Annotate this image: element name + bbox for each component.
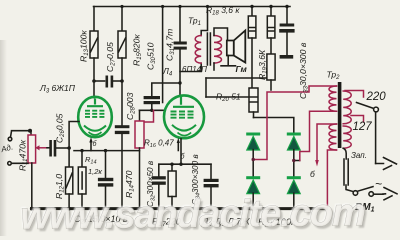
- wire C32 top lead: [158, 164, 160, 176]
- resistor R15: [118, 31, 126, 58]
- wire right diode column mid: [294, 150, 300, 178]
- resistor R14: [78, 167, 86, 194]
- wire Tp1 secondary bottom stub: [213, 63, 215, 70]
- wire C34 bottom to bus: [210, 188, 212, 208]
- wire R12 bottom to bus: [68, 194, 70, 208]
- node A junction: [92, 79, 96, 83]
- wire R17 top lead: [171, 164, 173, 171]
- svg-text:R20 51: R20 51: [216, 92, 241, 104]
- capacitor C27: [106, 76, 109, 88]
- wire R21 bottom: [270, 80, 272, 90]
- wire jack lower to pot bottom: [11, 162, 28, 164]
- transformer Tp2 heater winding: [329, 124, 337, 150]
- transformer Tp1 core: [207, 33, 210, 65]
- speaker Gm: [227, 41, 234, 56]
- wire mains to selector: [375, 112, 377, 164]
- wire red heater lead with arrow: [317, 124, 337, 162]
- capacitor C28: [115, 125, 130, 128]
- wire L4 cathode rail: [159, 163, 211, 165]
- diode D3 cathode bar: [246, 176, 260, 179]
- wire R20 bottom to rectifier rail: [253, 112, 255, 118]
- switch VM1 contact left: [353, 191, 358, 196]
- svg-text:R16 0,47: R16 0,47: [144, 139, 174, 150]
- diode D3: [247, 180, 260, 194]
- resistor R16: [135, 121, 144, 148]
- wire switch to plug: [373, 193, 383, 195]
- svg-text:С270,05: С270,05: [105, 42, 117, 72]
- wire pot bottom to bus: [31, 163, 33, 208]
- capacitor C33 bottom electrode: [280, 55, 294, 59]
- tube L4 anode: [173, 97, 194, 107]
- capacitor C26: [49, 140, 52, 157]
- wire C28 bottom to ground bus: [121, 134, 123, 207]
- ground symbol under speaker: [227, 56, 229, 65]
- capacitor C33: [280, 24, 295, 27]
- resistor R19: [267, 16, 275, 38]
- transformer Tp2 primary winding lower: [343, 126, 351, 148]
- wire C33 lower lead: [286, 33, 288, 55]
- svg-text:С30510: С30510: [146, 42, 158, 70]
- wire left diode column bottom: [252, 193, 254, 207]
- diode D4: [287, 136, 300, 150]
- wire output secondary line upper: [206, 77, 267, 79]
- node bridge AC left: [252, 158, 255, 161]
- wire R12 top lead: [68, 148, 70, 167]
- svg-text:www.sandacite.com: www.sandacite.com: [20, 191, 365, 236]
- svg-text:Л3 6Ж1П: Л3 6Ж1П: [39, 83, 76, 95]
- bus junction dots: [30, 207, 34, 211]
- capacitor C32: [152, 176, 166, 179]
- svg-text:~: ~: [375, 177, 382, 191]
- wire L4 grid line: [140, 109, 165, 111]
- wire wiper to C26: [47, 147, 49, 149]
- wire R16 bottom to bus: [139, 148, 141, 208]
- capacitor C30: [144, 96, 160, 99]
- diode D4 cathode bar: [287, 133, 301, 136]
- wire pot top lead: [30, 131, 32, 135]
- node B junction: [120, 79, 124, 83]
- input jack Ad upper terminal: [8, 137, 12, 141]
- svg-text:С314,7т: С314,7т: [165, 29, 177, 61]
- plug prong upper: [376, 158, 397, 170]
- wire output secondary line left: [205, 78, 207, 97]
- wire C30 top link to anode line: [152, 83, 180, 96]
- tube L4 cathode: [172, 125, 196, 131]
- wire R13 bottom to node A: [93, 58, 95, 81]
- resistor R21: [267, 54, 275, 80]
- tube L3 anode: [87, 99, 103, 107]
- wire grid riser: [69, 122, 79, 149]
- wire C29 top lead: [105, 151, 107, 178]
- svg-text:R15820к: R15820к: [132, 34, 144, 66]
- resistor R20: [249, 88, 258, 112]
- wire R15 column top: [121, 7, 123, 32]
- switch VM1 contact right: [369, 192, 374, 197]
- wire C32 bottom to bus: [158, 185, 160, 208]
- wire C33 top lead: [286, 7, 288, 24]
- wire C31 top lead: [179, 7, 181, 42]
- wire C34 top lead: [210, 164, 212, 179]
- svg-text:R13100к: R13100к: [79, 30, 91, 62]
- transformer Tp2 secondary winding upper: [329, 86, 337, 111]
- resistor R18: [248, 16, 256, 38]
- potentiometer R11: [28, 135, 36, 163]
- svg-text:R18 3,6 к: R18 3,6 к: [206, 5, 240, 17]
- tube L3 cathode: [84, 126, 106, 131]
- wire red HV secondary to right bridge: [300, 111, 337, 160]
- svg-text:127: 127: [353, 121, 373, 133]
- tube L4 heater: [178, 133, 192, 136]
- plug prong lower: [383, 188, 397, 200]
- tube L3 heater: [89, 132, 102, 135]
- wire R16 top lead: [139, 110, 141, 121]
- diode D5: [287, 180, 300, 194]
- wire red HV secondary to left bridge: [253, 86, 336, 160]
- wire left diode column mid: [252, 150, 254, 178]
- svg-text:С28003: С28003: [125, 92, 137, 120]
- svg-text:1,2к: 1,2к: [88, 167, 102, 176]
- svg-text:Зап.: Зап.: [351, 151, 367, 160]
- wire R13 column top: [93, 7, 95, 32]
- wire fuse to switch: [346, 185, 353, 192]
- wire R14 bottom to bus: [81, 194, 83, 208]
- wire R18 column: [251, 7, 253, 17]
- wire R15 bottom: [121, 58, 123, 81]
- resistor R17: [168, 171, 176, 197]
- wire red winding to ground bus: [327, 150, 336, 208]
- svg-text:220: 220: [366, 91, 387, 103]
- node bridge AC right: [292, 159, 295, 162]
- wire R19 to R21: [270, 38, 272, 54]
- capacitor C34: [204, 179, 219, 182]
- wire L3 cathode rail: [74, 150, 140, 152]
- fuse Zap: [344, 159, 348, 185]
- svg-text:6П14П: 6П14П: [182, 65, 207, 74]
- wire C26 to grid node: [56, 147, 69, 149]
- node grid junction: [67, 146, 71, 150]
- wire C31 bottom to L4 anode: [179, 50, 181, 96]
- wiper arrow R11: [39, 147, 47, 149]
- wire red jog at R16: [144, 110, 154, 122]
- wire screen drop column: [162, 7, 164, 103]
- tube L4 envelope: [164, 95, 204, 138]
- switch VM1 blade: [358, 187, 373, 192]
- wire jack to pot top: [11, 131, 32, 138]
- tube L3 envelope: [78, 97, 112, 137]
- wire Tp1 secondary top to speaker: [214, 28, 228, 41]
- wire C29 bottom to bus: [105, 187, 107, 208]
- wire L4 cathode lead: [180, 139, 182, 165]
- wire primary to fuse: [343, 148, 346, 159]
- diode D2: [247, 136, 260, 150]
- wire R18 bottom to R20: [251, 38, 253, 88]
- resistor R12: [66, 167, 73, 194]
- wire C27 right lead: [113, 80, 122, 82]
- capacitor C29: [98, 178, 113, 181]
- wire C28 top lead: [121, 81, 123, 125]
- wire Tp1 primary bottom link: [180, 63, 201, 71]
- input jack Ad lower terminal: [8, 162, 12, 166]
- svg-text:R193,6К: R193,6К: [257, 49, 269, 80]
- capacitor C31: [174, 42, 187, 45]
- wire rectifier top rail: [254, 118, 294, 134]
- switch 220 selector contact: [374, 107, 379, 112]
- wire top supply bus: [94, 6, 291, 8]
- tube L4 grids: [171, 112, 194, 118]
- wire red tap 220: [345, 91, 364, 98]
- svg-text:С260,05: С260,05: [55, 113, 67, 143]
- watermark: [19, 190, 367, 240]
- wire L4 cathode arrow: [177, 142, 179, 151]
- wire red tap 127: [351, 116, 364, 123]
- diode D5 cathode bar: [287, 176, 301, 179]
- wire tube L3 anode lead: [93, 81, 95, 98]
- wire R14 top lead: [81, 151, 83, 167]
- transformer Tp2 core: [338, 82, 342, 148]
- wire R19 column: [270, 7, 272, 17]
- transformer Tp1 primary winding: [195, 36, 201, 64]
- switch 220 selector blade: [357, 103, 374, 109]
- wire L3 cathode arrow: [90, 142, 92, 151]
- svg-text:R11470к: R11470к: [18, 139, 30, 171]
- svg-text:Гм: Гм: [236, 64, 248, 74]
- transformer Tp2 primary winding upper: [343, 91, 351, 124]
- wire right diode column bottom: [293, 193, 295, 207]
- diode D2 cathode bar: [246, 133, 260, 136]
- resistor R13: [90, 31, 98, 58]
- node pot top junction: [28, 129, 32, 133]
- tube L3 grids: [85, 111, 104, 117]
- wire C27 left lead: [94, 80, 105, 82]
- wire Tp1 drop from bus: [201, 7, 207, 36]
- wire bottom ground bus: [30, 207, 328, 210]
- wire output secondary line lower: [206, 96, 249, 98]
- transformer Tp1 secondary winding: [214, 36, 222, 64]
- wire C30 bottom: [151, 104, 153, 110]
- wire R17 bottom to bus: [171, 197, 173, 208]
